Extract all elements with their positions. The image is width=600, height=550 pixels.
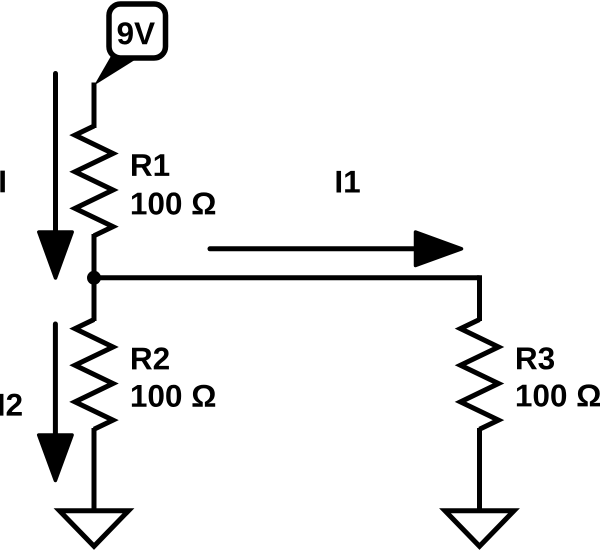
wire R2 bottom to left ground bbox=[92, 428, 97, 511]
current arrow I line bbox=[53, 74, 58, 234]
wire R1 bottom through node to R2 top bbox=[92, 234, 97, 321]
current arrow I2 line bbox=[53, 324, 58, 436]
current label I1 bbox=[337, 171, 360, 193]
wire node to right corner bbox=[94, 275, 480, 280]
voltage source value text 9V bbox=[118, 22, 155, 44]
resistor R3 zigzag bbox=[461, 320, 499, 430]
ground symbol right bbox=[445, 511, 514, 547]
voltage source label 9V callout box bbox=[109, 4, 166, 58]
voltage source label 9V callout tail bbox=[94, 56, 140, 86]
wire right corner down to R3 bbox=[477, 275, 482, 321]
current arrow I2 head bbox=[39, 435, 72, 481]
current arrow I1 line bbox=[210, 246, 416, 251]
wire R3 bottom to right ground bbox=[477, 428, 482, 511]
resistor R1 label bbox=[132, 154, 169, 176]
current arrow I head bbox=[39, 232, 72, 278]
resistor R2 label bbox=[132, 347, 169, 369]
wire from 9V tail down to R1 bbox=[92, 83, 97, 129]
resistor R1 value 100 ohm bbox=[132, 192, 215, 214]
current label I2 bbox=[0, 394, 22, 416]
resistor R1 zigzag bbox=[75, 126, 113, 236]
current arrow I1 head bbox=[416, 232, 462, 266]
resistor R3 value 100 ohm bbox=[517, 384, 600, 406]
node junction dot bbox=[87, 271, 101, 285]
resistor R2 value 100 ohm bbox=[132, 385, 215, 407]
resistor R3 label bbox=[517, 347, 554, 369]
resistor R2 zigzag bbox=[75, 320, 113, 430]
ground symbol left bbox=[60, 511, 129, 547]
current label I bbox=[0, 171, 5, 193]
